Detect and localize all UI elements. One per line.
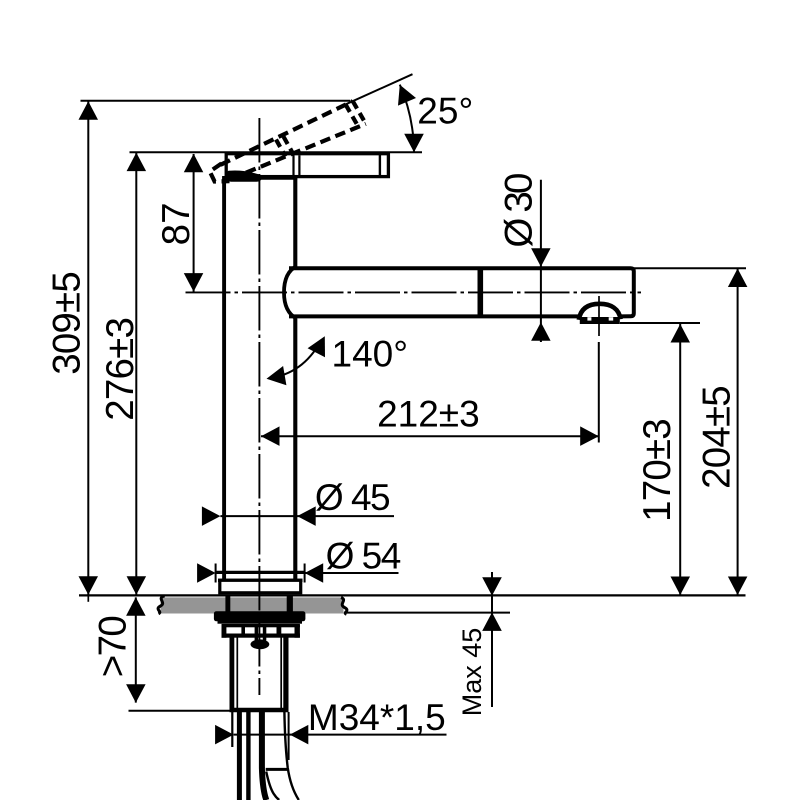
extension line (276 ref) y=152.3 <box>130 151 423 153</box>
arrow <box>404 134 424 153</box>
arrow <box>79 101 99 120</box>
svg-text:140°: 140° <box>332 333 409 374</box>
slab break squiggle left <box>158 596 164 614</box>
arrow <box>531 248 551 267</box>
309 line overshoot stub <box>87 595 89 602</box>
arrow <box>297 506 316 526</box>
aerator dome <box>579 304 621 320</box>
flange shoulder thick line <box>218 579 303 582</box>
svg-text:87: 87 <box>155 202 198 245</box>
arrow <box>671 324 691 343</box>
arrow <box>79 576 99 595</box>
25deg arc <box>400 85 414 152</box>
svg-text:309±5: 309±5 <box>45 272 88 375</box>
arrow <box>290 725 309 745</box>
dimension line 212±3 <box>261 435 599 437</box>
arrow <box>126 684 146 703</box>
arrow <box>197 563 216 583</box>
arrow <box>482 577 502 596</box>
arrow <box>184 154 204 173</box>
dimension line 87 <box>193 154 195 292</box>
lever divider line a <box>292 155 294 175</box>
hose line b <box>246 712 250 800</box>
flange box <box>220 580 301 593</box>
slab hole edge right <box>287 597 293 612</box>
svg-text:Ø 54: Ø 54 <box>326 536 401 577</box>
mounting nut left wall <box>222 625 227 638</box>
ext line aerator center lower <box>598 342 600 443</box>
dashed lever top edge <box>221 101 353 165</box>
fixing stud line right <box>263 625 267 641</box>
spout joint bar <box>477 267 483 319</box>
svg-text:Ø 45: Ø 45 <box>315 477 390 518</box>
arrow <box>126 597 146 616</box>
dashed lever divider b <box>284 137 294 154</box>
slab break squiggle right <box>341 598 347 615</box>
shank left wall <box>229 638 234 711</box>
mounting nut bottom bar <box>222 634 300 638</box>
hose right outer curve <box>284 712 298 800</box>
dashed lever inner end line <box>346 105 359 128</box>
dim line Max45 <box>491 572 493 707</box>
dim line >70 <box>135 597 137 702</box>
svg-text:204±5: 204±5 <box>696 386 739 489</box>
lever inner end line <box>379 155 381 175</box>
ext line Ø54 left <box>215 564 217 583</box>
body left wall <box>222 176 226 580</box>
dim line Ø30 vertical <box>540 180 542 342</box>
lever divider line b <box>298 155 300 175</box>
shank left inner thin line <box>236 638 238 709</box>
arrow <box>728 269 748 288</box>
svg-text:25°: 25° <box>417 90 473 131</box>
nut tooth b <box>277 627 282 634</box>
ext line shank bottom y=710.8 <box>129 710 233 712</box>
arrow <box>728 577 748 596</box>
arrow <box>215 725 234 745</box>
horizontal spout centerline <box>186 291 642 293</box>
body right wall upper <box>293 176 297 267</box>
arrow <box>127 576 147 595</box>
dimension line 309±5 <box>87 101 89 595</box>
lever solid beak <box>225 171 262 182</box>
svg-text:276±3: 276±3 <box>99 318 142 421</box>
slab hole edge left <box>225 597 230 612</box>
body right wall lower <box>293 318 297 580</box>
hose inner curve below joint <box>266 772 279 800</box>
aerator notch left <box>587 317 591 320</box>
140deg arc <box>269 342 321 379</box>
arrow <box>398 85 416 106</box>
diagonal lever-axis extension line <box>346 74 413 104</box>
arrow <box>202 506 221 526</box>
arrow <box>308 336 325 357</box>
stud nut blob <box>251 639 270 649</box>
shank bottom bar <box>230 708 289 712</box>
extension line top (309 ref) y=100.8 <box>81 100 351 102</box>
ext line aerator center upper <box>598 296 600 336</box>
countertop bottom ref line <box>345 612 510 614</box>
dim line Ø54 <box>216 572 399 574</box>
dashed lever end face <box>353 101 366 124</box>
svg-text:Max 45: Max 45 <box>457 628 487 717</box>
svg-text:170±3: 170±3 <box>636 419 679 522</box>
arrow <box>531 322 551 341</box>
dimension line 170±3 <box>679 324 681 595</box>
hose line c (bending) <box>262 712 266 800</box>
svg-text:M34*1,5: M34*1,5 <box>308 697 446 738</box>
spout fillet arc <box>284 266 297 318</box>
arrow <box>482 612 502 631</box>
dim line M34 <box>234 734 447 736</box>
spout outline top+end <box>289 268 634 316</box>
body top edge <box>222 176 297 180</box>
dashed lever divider a <box>276 140 286 157</box>
nut tooth a <box>241 627 245 634</box>
ext line M34 right <box>288 712 290 760</box>
lever rect (handle horizontal) <box>226 154 388 177</box>
aerator notch right <box>609 317 614 320</box>
dimension line 204±5 <box>737 269 739 596</box>
dashed lever bottom edge <box>231 124 366 179</box>
countertop slab gray <box>161 597 344 613</box>
dimension line 276±3 <box>135 153 137 596</box>
hose connector joint <box>266 768 288 771</box>
mounting nut top bar <box>222 624 300 627</box>
arrow <box>305 563 324 583</box>
ext line aerator outlet y=323 <box>620 322 700 324</box>
arrow <box>127 153 147 172</box>
countertop surface line <box>79 594 746 596</box>
flange top thin line <box>216 571 304 573</box>
arrow <box>261 426 280 446</box>
arrow <box>671 577 691 596</box>
vertical centerline <box>258 118 260 695</box>
shank right inner thin line <box>280 638 282 709</box>
mounting nut right wall <box>295 625 300 638</box>
rubber washer bar <box>214 611 306 621</box>
fixing stud line left <box>255 625 259 641</box>
shank right wall <box>283 638 288 711</box>
arrow <box>184 273 204 292</box>
dim line Ø45 <box>220 515 394 517</box>
ext line Ø54 right <box>304 564 306 583</box>
washer step bar <box>218 621 303 624</box>
svg-text:Ø 30: Ø 30 <box>498 174 541 248</box>
svg-text:212±3: 212±3 <box>377 394 480 435</box>
ext line M34 left <box>231 710 233 747</box>
spout bottom edge <box>289 314 580 318</box>
arrow <box>580 426 599 446</box>
hose line a <box>237 712 242 800</box>
arrow <box>267 366 287 385</box>
ext line spout top right y=268.2 <box>634 267 746 269</box>
dashed lever beak pentagon <box>210 164 230 182</box>
svg-text:>70: >70 <box>92 617 135 678</box>
aerator base bar <box>580 317 620 324</box>
